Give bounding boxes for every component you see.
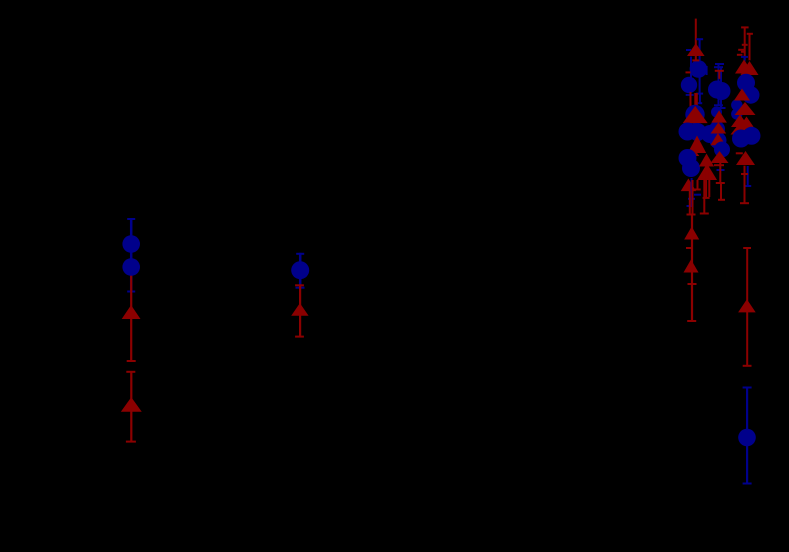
red triangle P30: [711, 151, 729, 163]
red triangle P7: [738, 299, 756, 312]
blue circle P16: [679, 149, 697, 167]
red errorbar E23: [715, 70, 724, 79]
red triangle P26b: [710, 133, 725, 145]
blue circle P23: [708, 81, 726, 99]
red triangle P15: [688, 136, 706, 154]
red errorbar E16b: [708, 172, 710, 197]
red triangle P43: [736, 151, 755, 165]
red errorbar E3: [126, 371, 136, 443]
blue circle P27d: [709, 121, 725, 137]
blue errorbar E22: [714, 66, 726, 109]
blue circle P5: [291, 261, 309, 279]
red triangle P38: [735, 102, 756, 115]
blue circle P42: [743, 127, 761, 145]
red triangle P33: [741, 61, 759, 75]
red errorbar E8: [695, 19, 697, 61]
red errorbar E13: [694, 93, 698, 110]
blue circle P12b: [685, 105, 704, 124]
blue circle P11: [681, 77, 697, 93]
red errorbar E15: [700, 180, 709, 215]
red triangle P6: [291, 303, 308, 316]
blue errorbar E10: [686, 49, 692, 78]
red triangle P18: [685, 146, 700, 156]
blue circle P36b: [731, 108, 742, 119]
red cap E33: [737, 54, 743, 56]
blue circle P27: [710, 132, 727, 149]
blue circle P36: [731, 99, 742, 110]
blue circle P27b: [701, 125, 719, 143]
red triangle P40c: [731, 123, 750, 135]
red errorbar E28: [741, 26, 749, 60]
red triangle P29: [699, 154, 714, 167]
red triangle P12: [683, 106, 708, 123]
blue errorbar E17: [687, 178, 702, 207]
red triangle P22: [684, 260, 699, 273]
blue errorbar E1: [127, 218, 135, 293]
red triangle P40b: [738, 117, 755, 130]
red triangle P26: [711, 122, 727, 133]
blue cap E24b: [717, 169, 725, 171]
red errorbar E12: [690, 92, 692, 110]
blue errorbar E11c: [698, 94, 703, 104]
blue errorbar E21: [714, 63, 724, 106]
red errorbar E29: [747, 33, 753, 61]
red triangle P3: [122, 305, 141, 319]
red errorbar E14: [695, 180, 701, 191]
red triangle P32: [735, 60, 753, 74]
blue errorbar E9: [696, 38, 703, 94]
red cap E24: [714, 164, 724, 166]
red triangle P25: [711, 110, 727, 122]
blue circle P29b: [714, 142, 730, 158]
blue circle P2: [122, 258, 140, 276]
blue circle P10: [690, 60, 708, 78]
red errorbar E26: [718, 183, 725, 201]
red triangle P21: [684, 227, 699, 240]
blue errorbar E4: [296, 253, 305, 289]
red errorbar E6: [743, 247, 752, 367]
red triangle P4: [121, 397, 142, 412]
red cap E31: [738, 49, 744, 51]
red triangle P19: [697, 164, 717, 181]
blue circle P27c: [711, 107, 722, 118]
red triangle P35: [734, 89, 750, 101]
red errorbar E2: [127, 270, 136, 362]
blue circle P14b: [689, 123, 707, 141]
red triangle P20: [681, 179, 696, 192]
blue circle P1: [122, 235, 140, 253]
blue circle P34b: [742, 86, 759, 103]
blue errorbar E7: [743, 387, 752, 485]
blue errorbar E34: [741, 56, 748, 65]
blue cap E11b: [686, 94, 694, 96]
red errorbar E25: [716, 163, 725, 184]
blue circle P24: [713, 82, 731, 100]
blue circle P17: [682, 159, 700, 177]
red triangle P40: [731, 115, 749, 128]
red errorbar E37: [740, 166, 749, 205]
blue errorbar E22b: [706, 66, 708, 75]
red errorbar E5: [295, 284, 304, 337]
blue errorbar E36: [744, 166, 751, 187]
red errorbar E16: [703, 172, 710, 199]
blue circle P8: [738, 429, 756, 447]
blue circle P34: [737, 74, 755, 92]
red cap E8b: [692, 59, 699, 61]
blue circle P41: [732, 130, 750, 148]
blue circle P14: [679, 123, 697, 141]
red errorbar E20: [686, 215, 697, 323]
red cap E11: [686, 71, 691, 73]
red errorbar E19: [687, 180, 696, 216]
red cap E35: [736, 152, 743, 154]
red triangle P9: [687, 43, 705, 56]
red cap E32: [741, 51, 744, 53]
red cap E30: [742, 44, 748, 46]
